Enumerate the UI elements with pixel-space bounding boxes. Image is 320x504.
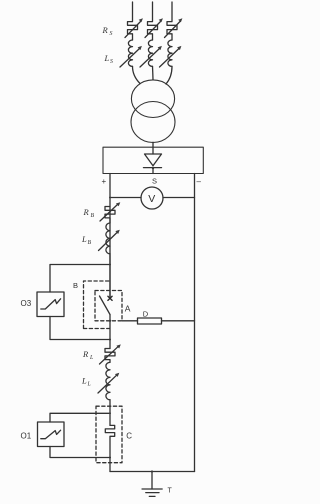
junction dot ground stub	[151, 470, 153, 472]
wire phase2 to transformer	[152, 66, 155, 79]
svg-text:R: R	[83, 207, 90, 217]
arrowhead RS2	[159, 18, 163, 22]
inductor LS phase 1 (coil)	[128, 40, 132, 66]
wire transformer to rectifier	[152, 142, 154, 147]
switch contact x-mark	[108, 296, 112, 300]
inductor LS phase 2 (coil)	[148, 40, 152, 66]
svg-text:B: B	[73, 281, 78, 290]
voltmeter wire right	[163, 197, 195, 199]
oscillograph O1 trace symbol	[41, 430, 61, 439]
left DC rail (rectifier to switch)	[109, 174, 111, 298]
junction dot at V wire left	[109, 197, 111, 199]
svg-text:T: T	[168, 488, 173, 495]
arrowhead LL	[115, 373, 119, 377]
O1 bottom wire	[50, 447, 110, 458]
O3 bottom wire	[50, 317, 110, 340]
arrow RS3	[165, 22, 181, 38]
svg-text:S: S	[110, 59, 113, 65]
diode anode wire	[152, 147, 154, 154]
dashed enclosure B (left, top, bottom edges to rail)	[84, 281, 111, 329]
svg-text:–: –	[197, 177, 202, 186]
transformer secondary winding circle	[131, 102, 175, 143]
svg-text:S: S	[152, 177, 157, 186]
wire phase3 to transformer	[166, 66, 172, 84]
oscillograph O1 box	[38, 422, 65, 447]
right DC rail	[194, 174, 196, 472]
svg-text:L: L	[81, 234, 87, 244]
phase line 2 top stub	[152, 2, 154, 21]
arrowhead LB	[115, 230, 120, 234]
resistor RS phase 3 (meander)	[167, 22, 177, 40]
wire LB to switch	[109, 254, 111, 297]
svg-text:B: B	[91, 213, 95, 219]
ground bar 1	[142, 488, 162, 490]
svg-text:R: R	[102, 25, 109, 35]
ground stub	[151, 472, 153, 490]
svg-text:L: L	[104, 53, 110, 63]
oscillograph O3 box	[37, 292, 64, 317]
O3 top wire	[50, 265, 110, 293]
svg-text:O3: O3	[21, 299, 32, 308]
junction dot O3 top	[109, 264, 111, 266]
svg-text:L: L	[89, 355, 93, 361]
arrowhead LS3	[177, 46, 181, 50]
arrow LB	[99, 233, 118, 251]
oscillograph O3 trace symbol	[41, 299, 61, 309]
svg-text:B: B	[88, 240, 92, 246]
switch blade	[100, 296, 111, 315]
wire node A to resistor D	[122, 320, 138, 322]
arrow RS2	[145, 22, 161, 38]
junction dot O1 bottom	[109, 457, 111, 459]
junction dot O1 top	[109, 412, 111, 414]
diode cathode wire	[152, 168, 154, 174]
arrowhead LS2	[158, 46, 162, 50]
arrowhead RS3	[178, 18, 182, 22]
dashed enclosure C	[96, 406, 122, 463]
svg-text:S: S	[110, 31, 113, 37]
diode cathode bar	[144, 167, 162, 169]
switch lower terminal wire	[109, 315, 111, 349]
phase line 3 top stub	[171, 2, 173, 21]
resistor RS phase 1 (meander)	[128, 22, 138, 40]
resistor RS phase 2 (meander)	[148, 22, 158, 40]
svg-text:D: D	[143, 309, 149, 318]
wire D to right rail	[162, 320, 195, 322]
inductor LL (coil)	[106, 362, 110, 400]
svg-text:V: V	[148, 193, 155, 205]
svg-text:L: L	[87, 382, 91, 388]
wire LL to capacitor bank	[109, 400, 111, 426]
arrow RS1	[125, 22, 141, 38]
ground bar 3	[149, 495, 155, 497]
dashed enclosure A (inner switch box)	[95, 291, 122, 321]
ground bar 2	[146, 492, 159, 494]
voltmeter V circle	[141, 187, 163, 209]
junction dot O3 bottom	[109, 339, 111, 341]
bottom return wire	[110, 471, 195, 473]
resistor RL (meander)	[105, 349, 115, 363]
arrowhead RB	[116, 202, 120, 206]
resistor RB (meander)	[105, 207, 115, 224]
arrowhead LS1	[138, 46, 142, 50]
svg-text:O1: O1	[21, 432, 32, 441]
svg-text:L: L	[81, 376, 87, 386]
diode cathode dot	[152, 167, 154, 169]
wire phase1 to transformer	[133, 66, 141, 83]
arrow LL	[98, 375, 117, 393]
capacitor element in C (meander)	[105, 425, 114, 471]
voltmeter wire left	[110, 197, 141, 199]
O1 top wire	[50, 413, 110, 422]
resistor D box	[138, 318, 162, 324]
arrow LS2	[140, 49, 160, 68]
svg-text:R: R	[82, 349, 89, 359]
inductor LB (coil)	[106, 223, 110, 254]
diode triangle	[145, 154, 162, 166]
arrowhead RL	[116, 344, 120, 348]
svg-text:C: C	[126, 432, 132, 441]
inductor LS phase 3 (coil)	[168, 40, 172, 66]
arrow RB	[100, 205, 118, 222]
phase line 1 top stub	[132, 2, 134, 21]
transformer primary winding circle	[131, 80, 174, 118]
svg-text:+: +	[102, 177, 107, 186]
arrow LS3	[160, 49, 180, 68]
arrowhead RS1	[139, 18, 143, 22]
rectifier box	[103, 147, 203, 173]
arrow RL	[100, 347, 119, 364]
svg-text:A: A	[125, 304, 131, 314]
arrow LS1	[120, 49, 140, 68]
junction dot node A	[109, 320, 111, 322]
